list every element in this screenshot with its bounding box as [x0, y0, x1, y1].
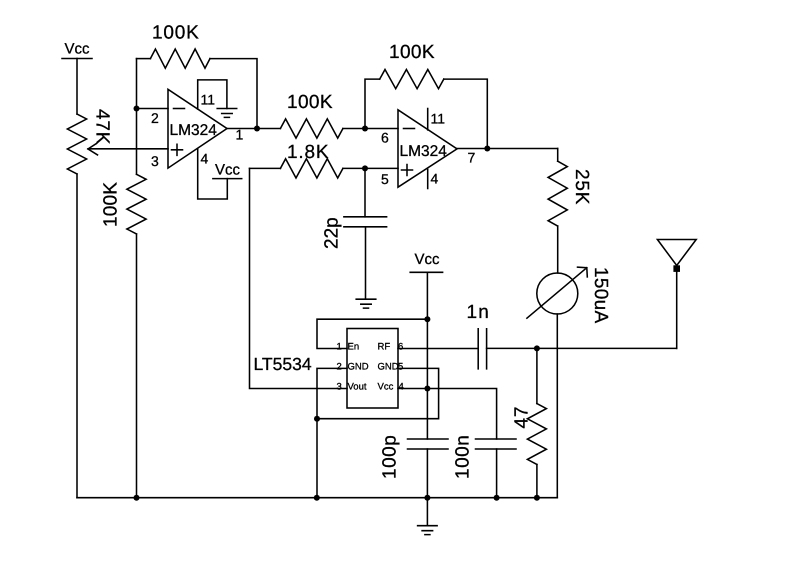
junction GND loop [314, 416, 320, 422]
op-amp U1 LM324 triangle [168, 89, 227, 168]
power Vcc supply left [62, 58, 92, 60]
svg-text:7: 7 [468, 150, 476, 166]
svg-text:3: 3 [151, 153, 159, 169]
capacitor C1 22p [344, 217, 387, 227]
svg-text:100K: 100K [287, 92, 333, 113]
power Vcc U1 pin 4 [213, 178, 242, 180]
svg-text:100n: 100n [453, 435, 474, 479]
ground U1 pin 11 [217, 109, 237, 118]
potentiometer RV1 47K body [67, 114, 86, 174]
wire Vcc bar to potentiometer top [76, 59, 78, 115]
wire R3 to U2 pin 6 [343, 128, 398, 130]
wire feedback node vertical [136, 59, 138, 175]
svg-text:6: 6 [381, 130, 389, 146]
junction rail at C4 [494, 495, 500, 501]
resistor R4 100K feedback U2 [380, 70, 444, 89]
svg-text:5: 5 [398, 362, 403, 373]
meter M1 arrow [527, 267, 587, 318]
wire node to U1 pin 2 [137, 108, 169, 110]
svg-text:2: 2 [337, 362, 342, 373]
wire feedback U2 up [365, 79, 380, 128]
junction U1 output [254, 126, 260, 132]
wire C2 to antenna [487, 347, 677, 349]
ground symbol main [418, 498, 438, 535]
wire pin5 node to C1 [364, 168, 366, 216]
wire antenna stem [676, 272, 678, 349]
svg-text:100K: 100K [389, 42, 435, 63]
wire U3 Vout to R5 [250, 168, 348, 388]
junction rail at GND loop [314, 495, 320, 501]
wire R7 to ground rail [536, 465, 538, 498]
resistor R1 100K feedback U1 [150, 49, 210, 68]
wire U2 output [457, 148, 558, 150]
svg-text:LT5534: LT5534 [254, 354, 312, 374]
pin 11 stub U2 [427, 109, 429, 130]
junction feedback at output U2 [484, 146, 490, 152]
junction rail at C3 [424, 495, 430, 501]
svg-text:Vcc: Vcc [415, 251, 441, 268]
svg-text:En: En [348, 342, 360, 353]
junction RF output node [534, 345, 540, 351]
svg-text:100K: 100K [152, 23, 200, 44]
svg-text:100p: 100p [380, 435, 401, 479]
op-amp U2 LM324 triangle [398, 110, 457, 187]
wire U3 pin4 to C4 [398, 389, 497, 440]
wire ground rail [77, 497, 557, 499]
svg-text:Vcc: Vcc [65, 41, 91, 58]
svg-text:22p: 22p [322, 217, 343, 249]
svg-text:4: 4 [399, 382, 404, 393]
pin 4 stub U2 [427, 169, 429, 188]
wire Vout corner to R5 [250, 167, 281, 169]
svg-text:RF: RF [378, 342, 391, 353]
wire U3 GND pins loop [317, 368, 439, 418]
svg-text:6: 6 [398, 342, 403, 353]
svg-text:4: 4 [201, 151, 209, 167]
wire R2 bottom to ground rail [136, 234, 138, 498]
svg-text:Vcc: Vcc [378, 382, 394, 393]
resistor R7 47 [527, 404, 546, 465]
wire R6 to meter [557, 226, 559, 273]
wire wiper to U1 pin 3 [88, 148, 168, 150]
svg-text:Vcc: Vcc [215, 162, 241, 179]
svg-text:4: 4 [431, 171, 439, 187]
svg-text:LM324: LM324 [170, 122, 218, 139]
svg-text:1n: 1n [467, 302, 491, 323]
power Vcc mid bar [410, 271, 442, 273]
wire U1 pin 4 to Vcc [198, 149, 228, 199]
capacitor C2 1n [478, 329, 486, 369]
op-amp U2 plus input mark [402, 165, 413, 176]
wire output corner down to R6 [557, 149, 559, 162]
wire RV1 bottom to ground rail [76, 174, 78, 498]
svg-text:25K: 25K [571, 169, 592, 205]
op-amp U2 minus input mark [404, 128, 415, 130]
svg-text:5: 5 [381, 171, 389, 187]
svg-text:LM324: LM324 [400, 143, 448, 160]
svg-text:2: 2 [151, 110, 159, 126]
svg-text:1.8K: 1.8K [287, 142, 329, 163]
antenna ANT1 triangle [657, 240, 696, 266]
svg-text:100K: 100K [101, 182, 122, 227]
junction U2 pin 5 node [362, 165, 368, 171]
wire U3 En to Vcc line [317, 319, 427, 348]
svg-text:GND: GND [378, 362, 399, 373]
svg-text:Vout: Vout [348, 382, 367, 393]
svg-text:11: 11 [201, 92, 216, 108]
resistor R3 100K [280, 119, 343, 138]
svg-text:47K: 47K [92, 109, 113, 145]
svg-text:GND: GND [348, 362, 369, 373]
junction U1 pin 2 node [134, 106, 140, 112]
junction rail at R2 [134, 495, 140, 501]
wire U1 output [227, 128, 280, 130]
resistor R6 25K [548, 161, 567, 226]
wire C3 to ground rail [426, 449, 428, 498]
meter M1 150uA body [537, 273, 578, 314]
svg-text:150uA: 150uA [590, 267, 611, 323]
potentiometer RV1 wiper arrow [88, 144, 98, 155]
wire RF node to R7 [536, 348, 538, 403]
capacitor C4 100n [476, 439, 517, 449]
wire R4 to U2 output [444, 79, 488, 148]
wire R1 right lead to output [210, 59, 257, 129]
antenna ANT1 feed square [673, 265, 680, 272]
svg-text:1: 1 [337, 342, 342, 353]
junction U3 pin4 Vcc [424, 386, 430, 392]
wire meter to ground rail [556, 314, 558, 498]
junction En-Vcc [424, 316, 430, 322]
ground C1 [356, 299, 376, 308]
wire U3 RF pin to C2 [398, 348, 478, 350]
resistor R5 1.8K [280, 159, 343, 178]
junction rail at R7 [534, 495, 540, 501]
wire U1 pin 11 to ground [198, 80, 227, 109]
wire R5 to U2 pin 5 [343, 167, 398, 169]
svg-text:47: 47 [512, 406, 533, 429]
svg-text:3: 3 [337, 382, 342, 393]
op-amp U1 minus input mark [174, 108, 185, 110]
IC U3 LT5534 body [347, 329, 398, 409]
wire Vcc down to C3 [426, 272, 428, 439]
junction U2 pin 6 node [362, 126, 368, 132]
resistor R2 100K to rail [127, 174, 146, 234]
wire R1 left lead [137, 58, 151, 60]
wire C4 to ground rail [496, 449, 498, 498]
wire C1 to ground [365, 227, 367, 299]
op-amp U1 plus input mark [172, 144, 183, 155]
capacitor C3 100p [408, 439, 449, 449]
svg-text:11: 11 [431, 111, 446, 127]
wire GND loop to rail [316, 419, 318, 498]
